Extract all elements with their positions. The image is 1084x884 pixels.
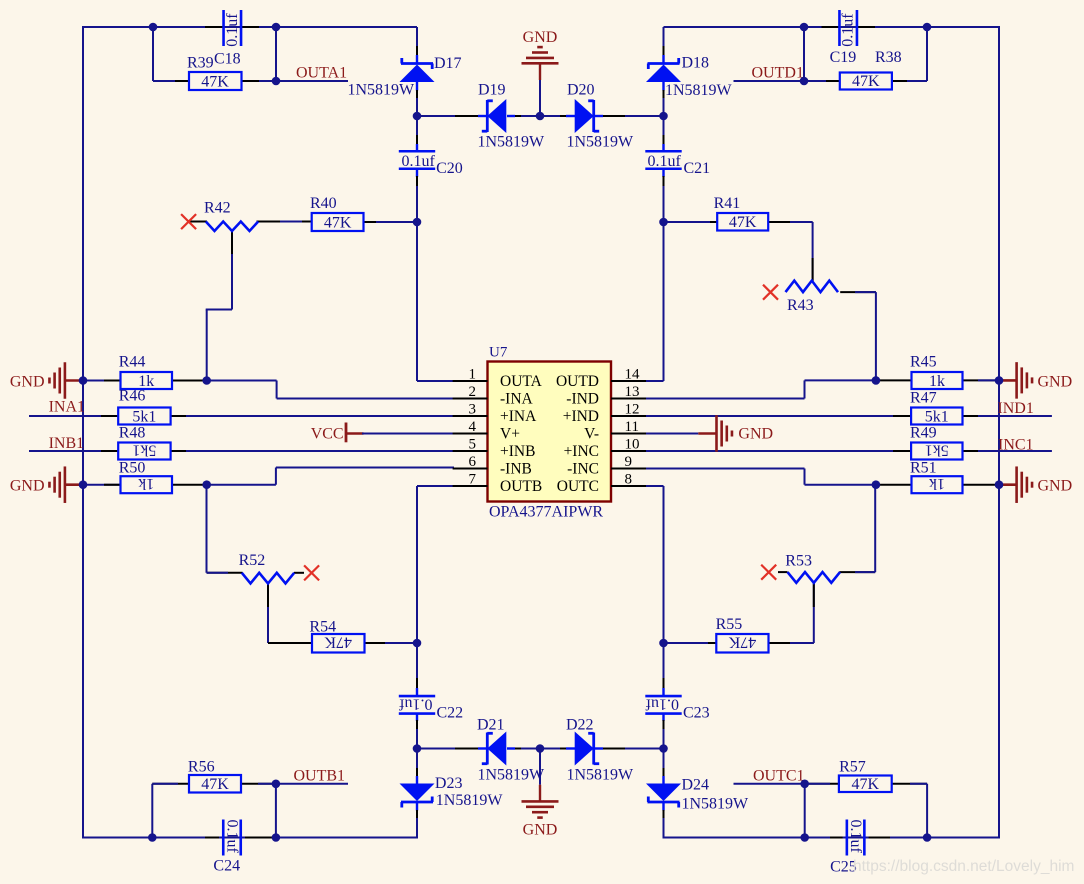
resistor R55 — [716, 616, 769, 653]
junction node at x=663.5 y=748.5 — [659, 744, 668, 753]
junction node at x=417 y=748.5 — [413, 744, 422, 753]
svg-text:0.1uf: 0.1uf — [648, 153, 682, 170]
wire C24 right lead — [245, 837, 276, 839]
junction node at x=83 y=484.7 — [79, 480, 88, 489]
wire R57 right vertical — [926, 784, 928, 838]
wire R41-R43 navy part — [790, 221, 813, 223]
wire R53 right navy part — [855, 571, 875, 573]
svg-text:C21: C21 — [684, 160, 711, 177]
svg-text:47K: 47K — [852, 73, 880, 90]
wire left trunk vertical x=83 — [82, 26, 84, 839]
svg-text:R46: R46 — [119, 388, 146, 405]
diode D17 — [348, 55, 462, 99]
wire pin11 navy — [646, 433, 698, 435]
junction node at x=206.7 y=380.5 — [202, 376, 211, 385]
svg-text:9: 9 — [625, 454, 633, 470]
wire R43 tap vertical — [812, 222, 814, 281]
svg-text:0.1uf: 0.1uf — [847, 820, 864, 854]
wire top rail right segment — [664, 26, 1001, 28]
wire R41 left navy part — [664, 221, 711, 223]
wire R39 right lead — [241, 80, 276, 82]
wire R46 left lead — [101, 415, 118, 417]
resistor R52 — [239, 552, 295, 584]
ground GND (left row4) — [10, 466, 65, 503]
wire D24 top lead — [663, 749, 665, 785]
svg-text:GND: GND — [523, 29, 558, 46]
wire R52 left vertical — [206, 485, 208, 573]
U7 pin 4 (V+) — [453, 419, 520, 443]
junction node at x=875.9 y=484.7 — [872, 480, 881, 489]
wire net OUTC1 stub — [734, 783, 805, 785]
svg-text:GND: GND — [10, 478, 45, 495]
power port GND (pin 11) — [717, 415, 774, 452]
wire center to D22 — [540, 748, 575, 750]
wire R38 right lead — [892, 80, 927, 82]
svg-text:47K: 47K — [852, 776, 880, 793]
wire R48 to pin5 — [186, 450, 454, 452]
wire pin7 horizontal — [417, 485, 454, 487]
wire net OUTD1 stub — [734, 80, 805, 82]
svg-text:+INA: +INA — [500, 408, 537, 425]
wire bottom GND drop navy part — [539, 749, 541, 785]
svg-text:R52: R52 — [239, 552, 266, 569]
svg-text:5k1: 5k1 — [925, 442, 949, 459]
junction node at x=804 y=27 — [800, 23, 809, 32]
wire pin14 horizontal — [646, 380, 664, 382]
svg-text:R49: R49 — [910, 425, 937, 442]
wire R40 right lead — [364, 221, 381, 223]
svg-text:47K: 47K — [201, 74, 229, 91]
svg-text:47K: 47K — [729, 214, 757, 231]
wire D19 to center — [507, 115, 540, 117]
U7 pin 3 (+INA) — [453, 402, 537, 426]
junction node at x=275.9 y=837.5 — [272, 833, 281, 842]
capacitor C25 — [830, 820, 864, 876]
capacitor C21 — [645, 151, 710, 177]
net label INA1 — [49, 399, 85, 416]
power port GND (bottom center) — [522, 785, 559, 839]
power port GND (top center) — [522, 29, 559, 80]
wire net OUTA1 stub — [276, 80, 348, 82]
svg-text:R54: R54 — [309, 619, 336, 636]
diode D22 — [566, 717, 634, 784]
wire OUTB1 drop vertical — [275, 784, 277, 838]
resistor R44 — [119, 354, 172, 391]
wire C25 left lead — [805, 837, 843, 839]
junction node at x=663.5 y=643 — [659, 639, 668, 648]
svg-text:R56: R56 — [188, 759, 215, 776]
wire pin9 step vertical — [804, 469, 806, 485]
svg-text:OPA4377AIPWR: OPA4377AIPWR — [489, 504, 603, 521]
wire right trunk vertical x=999 — [998, 26, 1000, 839]
wire C23 top lead — [663, 643, 665, 697]
svg-text:IND1: IND1 — [997, 400, 1033, 417]
wire C25 right lead — [869, 837, 928, 839]
wire R57 right lead — [892, 783, 927, 785]
wire center-D20 blue part — [540, 115, 575, 117]
diode D18 — [646, 55, 733, 100]
svg-text:13: 13 — [625, 384, 640, 400]
svg-text:-IND: -IND — [566, 391, 599, 408]
wire C24 left lead — [152, 837, 219, 839]
net label OUTA1 — [296, 65, 347, 82]
wire R38 right drop x=927 — [926, 27, 928, 81]
wire GND2 stub — [65, 483, 83, 486]
svg-text:C19: C19 — [830, 49, 857, 66]
resistor R47 — [910, 390, 963, 426]
wire D23 top lead — [416, 749, 418, 785]
svg-text:1N5819W: 1N5819W — [682, 795, 750, 812]
wire IND1 stub — [978, 415, 1052, 417]
wire D21 to center — [507, 748, 540, 750]
wire R53 tap black part — [813, 584, 815, 608]
wire C20 top lead — [416, 116, 418, 152]
wire R53 tap vertical — [813, 584, 815, 644]
wire pin1 horizontal — [417, 380, 454, 382]
resistor R50 — [119, 460, 172, 494]
svg-text:11: 11 — [625, 419, 639, 435]
wire bottom rail left segment — [82, 837, 417, 839]
wire x=417 C20 to pin1 corner — [416, 222, 418, 381]
wire D17 top lead — [416, 27, 418, 64]
svg-text:12: 12 — [625, 402, 640, 418]
wire R52 X lead — [294, 572, 304, 574]
resistor R45 — [910, 354, 963, 391]
wire R53 right horizontal — [840, 571, 876, 573]
svg-text:R55: R55 — [716, 616, 743, 633]
wire R56 left lead — [152, 783, 189, 785]
wire R38 left lead — [804, 80, 840, 82]
svg-text:VCC: VCC — [311, 426, 344, 443]
U7 pin 2 (-INA) — [453, 384, 534, 408]
wire OUTC1 drop vertical — [804, 784, 806, 838]
svg-text:OUTB1: OUTB1 — [294, 767, 346, 784]
capacitor C22 — [399, 695, 464, 721]
capacitor C19 — [830, 10, 902, 66]
U7 pin 8 (OUTC) — [557, 472, 646, 496]
ground GND (right row4) — [1017, 466, 1073, 503]
svg-text:5k1: 5k1 — [132, 442, 156, 459]
junction node at x=83 y=380.5 — [79, 376, 88, 385]
capacitor C20 — [399, 151, 463, 177]
svg-text:0.1uf: 0.1uf — [224, 820, 241, 854]
wire R43 tap black part — [812, 258, 814, 281]
junction node at x=999 y=484.7 — [995, 480, 1004, 489]
svg-text:D19: D19 — [478, 82, 506, 99]
wire R50 junction to step — [207, 484, 276, 486]
power port VCC — [311, 423, 346, 443]
wire R48 left lead — [101, 450, 118, 452]
net label OUTC1 — [753, 767, 805, 784]
svg-text:0.1uf: 0.1uf — [840, 13, 857, 47]
wire R42 tap jog horizontal — [206, 309, 232, 311]
svg-text:https://blog.csdn.net/Lovely_h: https://blog.csdn.net/Lovely_him — [853, 858, 1074, 875]
wire C22 top lead — [416, 643, 418, 697]
wire GND3 stub — [999, 379, 1017, 382]
svg-text:47K: 47K — [324, 634, 352, 651]
svg-text:0.1uf: 0.1uf — [645, 695, 679, 712]
svg-text:R50: R50 — [119, 460, 146, 477]
resistor R39 — [189, 72, 242, 91]
wire R57 left lead — [805, 783, 839, 785]
svg-text:R38: R38 — [875, 49, 902, 66]
wire C20 bottom lead — [416, 169, 418, 223]
wire R50 left lead — [104, 484, 121, 486]
junction node at x=540 y=748.5 — [536, 744, 545, 753]
U7 pin 6 (-INB) — [453, 454, 532, 478]
junction node at x=276 y=27 — [272, 23, 281, 32]
wire C21 bottom lead — [662, 169, 664, 223]
no-ERC cross at R53 — [761, 565, 776, 580]
wire x=663.5 C21 to pin14 corner — [663, 222, 665, 381]
wire pin10 to R49 — [646, 450, 912, 452]
svg-text:R47: R47 — [910, 390, 937, 407]
diode D23 — [400, 775, 504, 809]
wire net OUTB1 stub — [276, 783, 348, 785]
wire R52 tap to R54 — [268, 642, 312, 644]
svg-text:1N5819W: 1N5819W — [567, 767, 635, 784]
svg-text:14: 14 — [625, 367, 641, 383]
wire center to D20 — [540, 115, 575, 117]
wire R49 left lead — [893, 450, 911, 452]
wire R52 tap vertical — [267, 584, 269, 644]
resistor R43 — [786, 281, 839, 314]
wire pin12 to R47 — [646, 415, 912, 417]
wire pin6 horizontal — [276, 467, 454, 469]
svg-text:OUTB: OUTB — [500, 478, 542, 495]
resistor R48 — [118, 425, 170, 460]
wire C25 left navy part — [805, 837, 830, 839]
svg-text:0.1uf: 0.1uf — [224, 13, 241, 47]
svg-text:OUTC: OUTC — [557, 478, 599, 495]
wire R51 left lead — [876, 484, 912, 486]
wire R54 right lead — [365, 642, 418, 644]
resistor R53 — [785, 553, 840, 583]
wire R53 X lead — [778, 571, 788, 573]
wire pin2 horizontal — [277, 398, 454, 400]
svg-text:1k: 1k — [138, 475, 154, 492]
svg-text:V+: V+ — [500, 426, 520, 443]
wire R42 X lead — [189, 221, 207, 223]
svg-text:1N5819W: 1N5819W — [436, 792, 504, 809]
diode D24 — [646, 777, 749, 813]
svg-text:GND: GND — [738, 426, 773, 443]
wire R44 junction to step — [207, 380, 277, 382]
wire D21 left navy part — [417, 748, 487, 750]
wire pin6 step vertical — [275, 468, 277, 485]
svg-text:47K: 47K — [324, 215, 352, 232]
junction node at x=153 y=27 — [149, 23, 158, 32]
svg-text:INC1: INC1 — [998, 437, 1034, 454]
svg-text:C18: C18 — [214, 51, 241, 68]
svg-text:D18: D18 — [682, 55, 710, 72]
svg-text:R39: R39 — [187, 55, 214, 72]
junction node at x=152.3 y=837.5 — [148, 833, 157, 842]
capacitor C23 — [645, 695, 710, 721]
wire VCC to pin4 — [362, 433, 454, 435]
wire R52 left navy part — [207, 572, 229, 574]
capacitor C18 — [187, 10, 241, 72]
capacitor C24 — [213, 820, 240, 875]
svg-text:+INC: +INC — [564, 443, 599, 460]
resistor R41 — [714, 195, 769, 231]
wire pin13 step vertical — [804, 380, 806, 398]
junction node at x=927 y=27 — [923, 23, 932, 32]
wire x=663.5 pin8 to R55 corner — [663, 486, 665, 643]
wire INA1 stub — [29, 415, 118, 417]
wire R42-R40 navy part — [280, 221, 302, 223]
wire R56 right lead — [241, 783, 276, 785]
junction node at x=276 y=81 — [272, 77, 281, 86]
wire R55 right navy part — [790, 642, 814, 644]
wire R44 right lead — [172, 380, 207, 382]
junction node at x=999 y=380.4 — [995, 376, 1004, 385]
wire C23 bottom lead — [662, 713, 664, 749]
svg-text:D21: D21 — [477, 717, 505, 734]
wire VCC red lead — [346, 432, 364, 434]
wire R54 right navy part — [385, 642, 417, 644]
svg-text:7: 7 — [469, 472, 477, 488]
no-ERC cross at R43 — [763, 285, 778, 300]
svg-text:1N5819W: 1N5819W — [348, 82, 416, 99]
wire C22 bottom lead — [416, 713, 418, 749]
junction node at x=804.7 y=837.5 — [800, 833, 809, 842]
svg-text:0.1uf: 0.1uf — [402, 153, 436, 170]
svg-text:D22: D22 — [566, 717, 594, 734]
wire R43 down to R45 junction — [875, 292, 877, 380]
wire INB1 stub — [29, 450, 118, 452]
svg-text:1k: 1k — [929, 373, 945, 390]
svg-text:47K: 47K — [728, 634, 756, 651]
wire pin9 step to R51 junction — [805, 484, 876, 486]
no-ERC cross at R52 — [304, 565, 319, 580]
wire R40 to trunk — [376, 221, 417, 223]
wire center-D22 navy part — [540, 748, 575, 750]
wire R52 left horizontal — [207, 572, 243, 574]
junction node at x=927.1 y=837.5 — [923, 833, 932, 842]
junction node at x=206.7 y=484.7 — [202, 480, 211, 489]
U7 pin 14 (OUTD) — [556, 367, 646, 391]
svg-text:1k: 1k — [929, 475, 945, 492]
wire R42 tap vertical — [231, 231, 233, 310]
svg-text:-INA: -INA — [500, 391, 534, 408]
wire pin11 GND red lead — [698, 432, 716, 434]
wire R45 left lead — [876, 379, 912, 381]
svg-text:R42: R42 — [204, 200, 231, 217]
wire R42 tap to R44 junction — [206, 310, 208, 381]
junction node at x=804.7 y=783.8 — [800, 780, 809, 789]
wire C21 top lead — [663, 116, 665, 152]
wire top rail left segment — [82, 26, 417, 28]
junction node at x=417 y=643 — [413, 639, 422, 648]
U7 pin 9 (-INC) — [567, 454, 646, 478]
resistor R40 — [310, 195, 364, 232]
wire D18 top lead — [663, 27, 665, 64]
junction node at x=540 y=116 — [536, 112, 545, 121]
svg-text:5k1: 5k1 — [925, 409, 949, 426]
wire R43 right to down — [840, 291, 876, 293]
svg-text:-INB: -INB — [500, 461, 532, 478]
net label OUTB1 — [294, 767, 346, 784]
resistor R49 — [910, 425, 963, 460]
svg-text:INA1: INA1 — [49, 399, 85, 416]
wire R56 left navy part — [152, 783, 178, 785]
wire R55 left navy part — [664, 642, 709, 644]
wire top GND drop navy part — [539, 80, 541, 116]
svg-text:R41: R41 — [714, 195, 741, 212]
svg-text:INB1: INB1 — [49, 435, 85, 452]
wire D17 bottom lead — [416, 81, 418, 117]
wire R50 right lead — [172, 484, 207, 486]
wire pin2 step vertical — [276, 381, 278, 399]
svg-text:0.1uf: 0.1uf — [399, 695, 433, 712]
svg-text:R43: R43 — [787, 297, 814, 314]
wire R38 left drop x=804 — [803, 27, 805, 81]
wire D19 left lead — [417, 115, 484, 117]
junction node at x=417 y=116 — [413, 112, 422, 121]
resistor R51 — [910, 460, 963, 494]
svg-text:1N5819W: 1N5819W — [478, 134, 546, 151]
svg-text:+INB: +INB — [500, 443, 535, 460]
svg-text:R53: R53 — [785, 553, 812, 570]
U7 pin 5 (+INB) — [453, 437, 536, 461]
net label IND1 — [997, 400, 1033, 417]
wire R57 left navy part — [805, 783, 830, 785]
svg-text:GND: GND — [10, 374, 45, 391]
wire D22 right navy part — [594, 748, 664, 750]
U7 pin 11 (V-) — [584, 419, 646, 443]
wire bottom rail right segment — [664, 837, 1001, 839]
wire GND4 stub — [999, 483, 1017, 486]
svg-text:C20: C20 — [436, 160, 463, 177]
svg-text:D20: D20 — [567, 82, 595, 99]
wire R41 right lead — [768, 221, 812, 223]
wire R53 up to R51 junction — [874, 485, 876, 572]
svg-text:R48: R48 — [119, 425, 146, 442]
svg-text:R44: R44 — [119, 354, 146, 371]
wire R47 right lead — [963, 415, 981, 417]
wire R46 to pin3 — [186, 415, 454, 417]
wire C18 left drop x=153 — [152, 27, 154, 81]
diode D20 — [567, 82, 635, 151]
wire R55 right lead — [769, 642, 814, 644]
wire R39 left lead — [153, 80, 189, 82]
wire R43 out navy part — [855, 291, 876, 293]
svg-text:GND: GND — [523, 821, 558, 838]
wire x=417 pin7 to R54 corner — [416, 486, 418, 643]
wire D18 bottom lead — [662, 81, 664, 117]
wire R56 right navy part — [258, 783, 276, 785]
svg-text:D23: D23 — [435, 775, 463, 792]
op-amp U7 body — [488, 345, 612, 521]
wire R55 left lead — [664, 642, 717, 644]
wire R57 right navy part — [910, 783, 927, 785]
diode D19 — [478, 82, 546, 151]
wire R42 tap black part — [231, 231, 233, 254]
svg-text:47K: 47K — [201, 776, 229, 793]
svg-text:1: 1 — [469, 367, 477, 383]
svg-text:R51: R51 — [910, 460, 937, 477]
svg-text:1N5819W: 1N5819W — [665, 82, 733, 99]
junction node at x=417 y=222 — [413, 218, 422, 227]
svg-text:C23: C23 — [683, 705, 710, 722]
svg-text:OUTC1: OUTC1 — [753, 767, 805, 784]
wire GND1 stub — [65, 379, 83, 382]
svg-text:R40: R40 — [310, 195, 337, 212]
wire D23 bottom lead — [416, 802, 418, 839]
wire R52 tap black part — [267, 584, 269, 608]
wire D22 right lead — [597, 748, 664, 750]
